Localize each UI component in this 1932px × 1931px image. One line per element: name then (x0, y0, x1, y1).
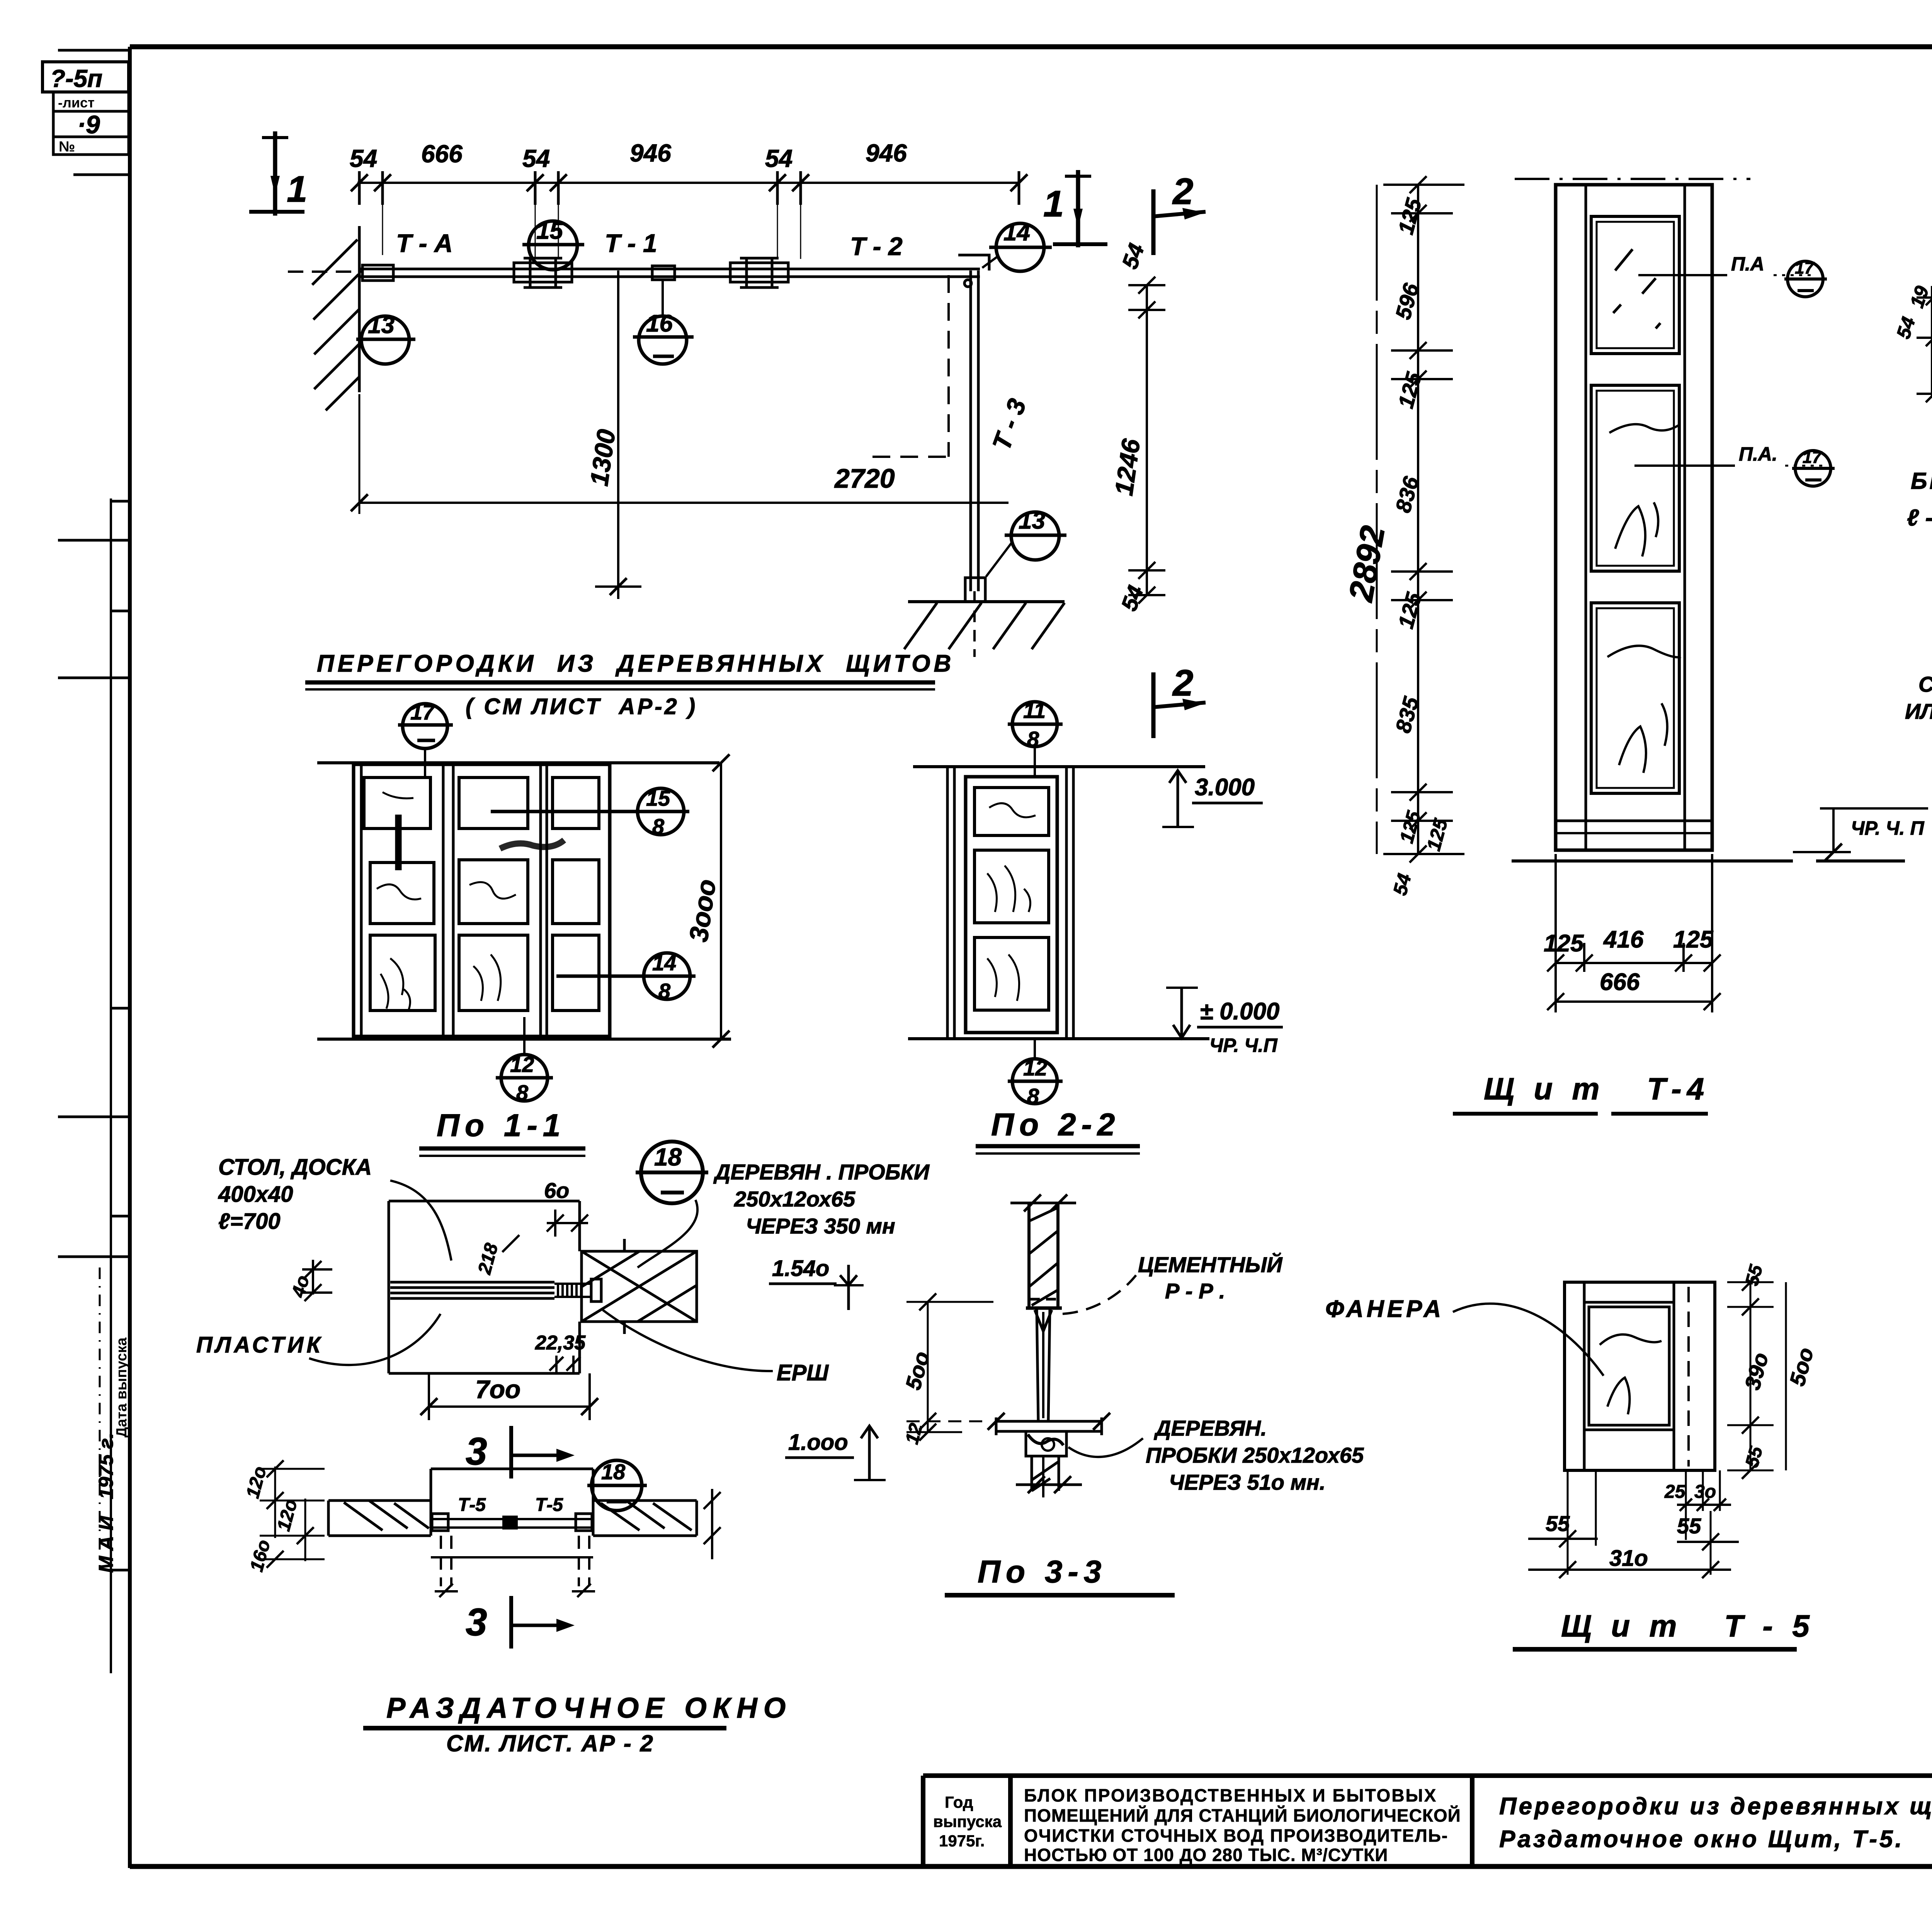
svg-text:1: 1 (1043, 183, 1064, 225)
circle marker 18 (plan) (587, 1460, 647, 1511)
svg-text:П.А: П.А (1731, 253, 1764, 275)
svg-text:Щ и т Т-4: Щ и т Т-4 (1484, 1072, 1709, 1106)
svg-text:М А И 1975 г.: М А И 1975 г. (95, 1433, 117, 1573)
circle marker 15 (522, 221, 584, 270)
circle marker 13 lower (986, 512, 1066, 577)
svg-text:8: 8 (1027, 727, 1039, 751)
svg-text:17: 17 (410, 700, 435, 724)
svg-text:125: 125 (1673, 926, 1714, 953)
T-3 bottom junction (965, 578, 985, 602)
svg-text:ℓ - 2829: ℓ - 2829 (1907, 505, 1932, 531)
leader fanera (1453, 1303, 1604, 1376)
wall hatch left (312, 226, 359, 410)
svg-text:400х40: 400х40 (218, 1182, 293, 1207)
leader from 18 to block (638, 1200, 697, 1267)
lower wall strip hatched (1032, 1456, 1059, 1497)
svg-text:55: 55 (1546, 1511, 1570, 1536)
svg-text:8: 8 (516, 1080, 529, 1105)
svg-text:ПРОБКИ 250х12ох65: ПРОБКИ 250х12ох65 (1146, 1443, 1364, 1467)
T-4 pane 2 (1591, 385, 1679, 571)
left column ticks (58, 175, 131, 1570)
plan top dimension chain line (357, 182, 1019, 184)
T-4 bottom rails (1556, 820, 1712, 822)
svg-text:Раздаточное окно Щит, Т-5.: Раздаточное окно Щит, Т-5. (1499, 1826, 1904, 1853)
svg-text:П.А.: П.А. (1739, 443, 1777, 465)
svg-text:14: 14 (652, 951, 676, 975)
level mark 3.000 (1162, 770, 1194, 827)
frame border left (128, 47, 132, 1868)
svg-text:ЧЕРЕЗ 350 мн: ЧЕРЕЗ 350 мн (746, 1214, 895, 1238)
plan title underline (305, 681, 935, 685)
wall bottom dashed joint (1030, 1298, 1057, 1301)
circle marker 17 (po1-1 top) (398, 704, 453, 779)
svg-text:ℓ=700: ℓ=700 (218, 1209, 281, 1234)
left dims 120 120 160 (260, 1460, 325, 1568)
svg-text:Т - 1: Т - 1 (605, 229, 657, 257)
svg-text:По 1-1: По 1-1 (437, 1108, 566, 1143)
svg-text:17: 17 (1803, 448, 1822, 467)
svg-text:СТЕКЛО: СТЕКЛО (1918, 672, 1932, 696)
svg-text:54: 54 (522, 145, 550, 172)
partition vertical T-3 double line (969, 271, 972, 591)
svg-text:СТОЛ, ДОСКА: СТОЛ, ДОСКА (218, 1155, 372, 1180)
svg-text:Т-5: Т-5 (458, 1495, 486, 1515)
partition junction block right (730, 258, 788, 288)
svg-text:3.000: 3.000 (1195, 774, 1255, 801)
svg-text:ЕРШ: ЕРШ (777, 1360, 829, 1385)
shelf board lines (390, 1282, 554, 1298)
section marker 1 (top right of plan) (1043, 170, 1107, 247)
floor line (317, 1038, 731, 1041)
T-4 pane 3 (1591, 603, 1679, 793)
glass squiggles (377, 792, 516, 1011)
svg-text:ОЧИСТКИ СТОЧНЫХ ВОД ПРОИЗВО: ОЧИСТКИ СТОЧНЫХ ВОД ПРОИЗВОДИТЕЛЬ- (1024, 1826, 1448, 1846)
svg-text:12: 12 (510, 1052, 534, 1077)
leader from stol label (390, 1181, 451, 1261)
svg-text:·9: ·9 (77, 110, 100, 139)
svg-text:125: 125 (1544, 930, 1584, 957)
svg-text:11: 11 (1023, 698, 1046, 723)
left dim chain po3-3 (906, 1293, 993, 1441)
circle marker 13 (356, 316, 415, 364)
floor line (908, 1037, 1209, 1040)
window plan: end blocks (432, 1514, 448, 1531)
partition assembly outer frame (354, 764, 610, 1036)
leader plastik (309, 1314, 440, 1365)
svg-text:13: 13 (368, 312, 395, 339)
svg-text:666: 666 (421, 140, 463, 168)
circle marker 11/8 (1008, 702, 1063, 777)
door panes (975, 788, 1049, 1010)
svg-text:17: 17 (1795, 259, 1815, 277)
svg-text:54: 54 (765, 145, 793, 172)
T-4 top dash-dot (1515, 178, 1750, 180)
T-4 chain ticks (1383, 176, 1464, 863)
floor hatch (904, 603, 1065, 649)
svg-text:25: 25 (1664, 1482, 1686, 1502)
frame border bottom (130, 1864, 1932, 1869)
svg-text:Т - 2: Т - 2 (850, 232, 903, 260)
window plan: right wall band (593, 1501, 697, 1536)
post below wall (1037, 1308, 1050, 1420)
left column dash line (99, 1267, 101, 1569)
svg-text:15: 15 (646, 786, 670, 810)
shelf board (988, 1413, 1110, 1435)
svg-text:3о: 3о (1694, 1482, 1716, 1502)
svg-text:14: 14 (1003, 219, 1030, 246)
svg-text:ЧЕРЕЗ 51о мн.: ЧЕРЕЗ 51о мн. (1169, 1470, 1325, 1494)
svg-text:416: 416 (1603, 926, 1644, 953)
door leaf (966, 777, 1057, 1033)
svg-text:6о: 6о (544, 1178, 569, 1203)
pencil smudge (500, 840, 564, 849)
T-4 panel outer (1556, 185, 1712, 850)
T-4 pane 1 (1591, 216, 1679, 354)
svg-text:-лист: -лист (58, 95, 95, 111)
svg-text:± 0.000: ± 0.000 (1200, 998, 1279, 1025)
circle marker 14/8 (556, 953, 696, 999)
section marker 2 (bottom) (1153, 662, 1206, 738)
window plan: left wall band (328, 1501, 431, 1536)
svg-text:2: 2 (1172, 171, 1193, 212)
partition junction block (at 15) (514, 258, 572, 288)
corner connection (958, 255, 989, 287)
circle marker 18 (636, 1142, 708, 1203)
circle marker 17 (pane1) (1784, 261, 1827, 297)
leader cement (1063, 1275, 1136, 1314)
svg-text:СМ. ЛИСТ. АР - 2: СМ. ЛИСТ. АР - 2 (446, 1730, 654, 1756)
circle marker 17 (pane2) (1792, 451, 1835, 486)
door handle bar (395, 815, 402, 870)
plan dim extension lines (383, 193, 801, 259)
left stamp boxes (43, 50, 129, 155)
svg-text:1.ооо: 1.ооо (788, 1430, 848, 1455)
leaf 3 panes (553, 778, 599, 1011)
dim 1300 vertical (617, 271, 619, 599)
svg-text:ЧР. Ч. П: ЧР. Ч. П (1851, 817, 1924, 839)
window plan: center block (502, 1516, 518, 1529)
svg-text:Щ и т Т - 5: Щ и т Т - 5 (1561, 1609, 1815, 1643)
circle marker 12/8 (po2-2) (1008, 1039, 1063, 1104)
section marker 3 (top) (466, 1426, 575, 1478)
ersh bolt into wall (554, 1279, 601, 1302)
svg-text:Год: Год (945, 1793, 973, 1811)
svg-text:Т-5: Т-5 (535, 1495, 563, 1515)
T-4 pane 2 squiggles (1609, 424, 1679, 556)
left filing column line (110, 498, 112, 1673)
T-3 dashed continuation to floor (973, 591, 976, 657)
ceiling line (913, 765, 1205, 768)
svg-text:НОСТЬЮ ОТ 100 ДО 280 ТЫС. М³: НОСТЬЮ ОТ 100 ДО 280 ТЫС. М³/СУТКИ (1024, 1845, 1388, 1865)
svg-text:Перегородки из деревянных щ: Перегородки из деревянных щитов Щит Т-4, (1499, 1793, 1932, 1820)
svg-text:16: 16 (646, 310, 673, 337)
T-5 pane (1589, 1307, 1669, 1425)
T-4 stiles (1585, 185, 1587, 850)
T-5 right dashed line (1687, 1287, 1690, 1467)
T-5 right dim chain (1727, 1274, 1774, 1479)
svg-text:3: 3 (466, 1601, 487, 1644)
leader probki (1068, 1438, 1143, 1457)
ceiling line (317, 761, 719, 764)
svg-text:ФАНЕРА: ФАНЕРА (1325, 1296, 1444, 1322)
hatched bracket below shelf (1026, 1431, 1066, 1456)
svg-text:2720: 2720 (834, 463, 895, 493)
wall strip hatched (1029, 1203, 1058, 1307)
svg-text:12: 12 (1023, 1056, 1047, 1080)
svg-text:БРУС 54х54: БРУС 54х54 (1911, 468, 1932, 494)
right end tick (704, 1489, 721, 1559)
svg-text:Дата выпуска: Дата выпуска (114, 1337, 130, 1438)
floor line under T-3 (908, 600, 1065, 603)
svg-text:250х12ох65: 250х12ох65 (734, 1187, 855, 1211)
T-4 pane 1 glass marks (1613, 249, 1660, 328)
svg-text:ПОМЕЩЕНИЙ ДЛЯ СТАНЦИЙ БИОЛОГИЧ: ПОМЕЩЕНИЙ ДЛЯ СТАНЦИЙ БИОЛОГИЧЕСКОЙ (1024, 1805, 1461, 1826)
dim 3000 vertical (720, 763, 722, 1039)
svg-text:54: 54 (350, 145, 377, 172)
svg-text:По 2-2: По 2-2 (991, 1107, 1120, 1142)
svg-text:ИЛИ ФАНЕРА: ИЛИ ФАНЕРА (1905, 699, 1932, 723)
circle marker 14 (982, 223, 1052, 271)
door frame (947, 767, 1073, 1039)
svg-text:1975г.: 1975г. (939, 1832, 985, 1850)
wall dash through partition (288, 271, 362, 273)
svg-text:946: 946 (630, 139, 671, 167)
svg-text:№: № (59, 139, 75, 155)
svg-text:13: 13 (1019, 507, 1045, 534)
svg-text:18: 18 (601, 1460, 626, 1484)
cross-hatched wall block (582, 1239, 697, 1334)
T-5 outer right dim 500 (1785, 1282, 1787, 1470)
svg-text:666: 666 (1600, 969, 1640, 995)
right dim chain 54/1246/54 (1128, 277, 1165, 604)
svg-text:22,35: 22,35 (535, 1332, 586, 1354)
T-5 panel outer (1565, 1282, 1715, 1470)
T-4 ground line (1512, 859, 1793, 863)
svg-text:8: 8 (658, 979, 671, 1003)
svg-text:Р - Р .: Р - Р . (1165, 1279, 1225, 1303)
leaf 2 panes (459, 778, 528, 1011)
svg-text:БЛОК ПРОИЗВОДСТВЕННЫХ И БЫТ: БЛОК ПРОИЗВОДСТВЕННЫХ И БЫТОВЫХ (1024, 1785, 1437, 1805)
T-5 inner frame (1584, 1282, 1674, 1470)
T-5 bottom dim extensions (1568, 1470, 1720, 1575)
T-4 big dim 2892 extension line (1376, 185, 1378, 854)
wall top tick (1010, 1194, 1076, 1211)
svg-text:ЦЕМЕНТНЫЙ: ЦЕМЕНТНЫЙ (1138, 1252, 1283, 1277)
circle marker 12/8 (496, 1017, 553, 1101)
svg-text:8: 8 (652, 814, 665, 839)
bottom tick (1016, 1476, 1082, 1493)
T-5 pane squiggles (1600, 1334, 1662, 1414)
svg-text:18: 18 (654, 1143, 682, 1171)
T-3 dashed line (947, 275, 950, 457)
pane squiggles (987, 803, 1036, 1001)
plan dim ticks and slashes (351, 171, 1027, 205)
svg-text:( СМ ЛИСТ АР-2 ): ( СМ ЛИСТ АР-2 ) (466, 694, 697, 719)
window plan: bottom outline (431, 1556, 593, 1558)
svg-text:ДЕРЕВЯН.: ДЕРЕВЯН. (1154, 1416, 1267, 1440)
svg-text:ПЛАСТИК: ПЛАСТИК (196, 1332, 323, 1358)
section marker 3 (bottom) (466, 1596, 575, 1649)
window plan: central box (431, 1469, 593, 1536)
section marker 2 (top) (1153, 171, 1206, 255)
frame border top (130, 44, 1932, 49)
dim 2720 (359, 502, 1009, 504)
svg-text:ЧР. Ч.П: ЧР. Ч.П (1209, 1034, 1278, 1056)
T-4 dim chain line (1417, 185, 1419, 854)
svg-text:ПЕРЕГОРОДКИ ИЗ ДЕРЕВЯННЫХ Щ: ПЕРЕГОРОДКИ ИЗ ДЕРЕВЯННЫХ ЩИТОВ (317, 650, 954, 677)
svg-text:2: 2 (1172, 662, 1193, 704)
section marker 1 (left) (249, 131, 307, 216)
svg-text:7оо: 7оо (475, 1375, 520, 1404)
partition joint (at 16) (652, 266, 675, 280)
svg-text:31о: 31о (1609, 1546, 1648, 1571)
circle marker 16 (633, 279, 694, 364)
svg-text:РАЗДАТОЧНОЕ ОКНО: РАЗДАТОЧНОЕ ОКНО (386, 1692, 792, 1724)
leaf 1 panes (364, 778, 435, 1011)
svg-text:3: 3 (466, 1430, 487, 1473)
post top cement wedge (1035, 1310, 1052, 1331)
svg-text:15: 15 (536, 218, 563, 244)
T-4 pane 3 squiggles (1607, 646, 1681, 773)
partition horizontal double line (359, 268, 980, 271)
svg-text:Т - А: Т - А (396, 229, 453, 257)
svg-text:?-5п: ?-5п (50, 65, 102, 92)
svg-text:946: 946 (866, 139, 907, 167)
window plan: sill double lines (431, 1518, 593, 1520)
svg-text:1.54о: 1.54о (772, 1256, 829, 1281)
partition junction block at wall (362, 265, 393, 281)
svg-text:1: 1 (287, 168, 307, 210)
svg-text:55: 55 (1677, 1514, 1701, 1538)
svg-text:8: 8 (1027, 1084, 1039, 1108)
svg-text:По 3-3: По 3-3 (978, 1554, 1107, 1589)
mullion double lines (361, 764, 547, 1036)
leader ersh (603, 1310, 773, 1371)
svg-text:ДЕРЕВЯН . ПРОБКИ: ДЕРЕВЯН . ПРОБКИ (713, 1160, 930, 1184)
window plan: dashed jamb drops (441, 1536, 589, 1586)
circle marker 15/8 (491, 788, 689, 835)
window plan bottom ticks (435, 1584, 595, 1597)
title block outline (923, 1776, 1932, 1866)
shelf plan outline (389, 1201, 580, 1373)
svg-text:выпуска: выпуска (933, 1812, 1002, 1831)
